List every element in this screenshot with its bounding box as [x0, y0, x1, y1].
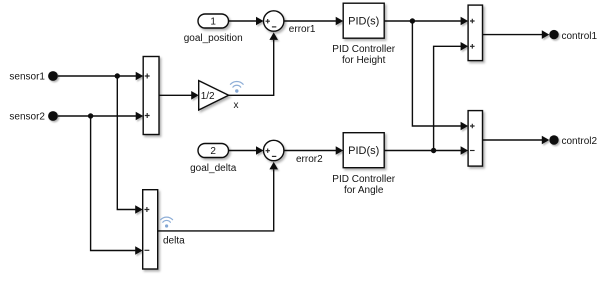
junction PID Angle output — [431, 148, 436, 153]
sum block Add2 (bottom right) — [468, 111, 482, 167]
svg-text:for Height: for Height — [342, 55, 386, 66]
svg-text:PID Controller: PID Controller — [332, 174, 395, 185]
wire sensor2 to Add — [58, 112, 143, 121]
wire Add2 to control2 — [483, 136, 550, 145]
wire goal_delta to Sum2 — [229, 146, 264, 155]
svg-text:PID(s): PID(s) — [348, 16, 379, 28]
junction PID Height output — [410, 18, 415, 23]
wire PID Angle junction up to Add1 second input — [434, 42, 469, 151]
wire Sum2 to PID Angle (error2) — [284, 146, 343, 165]
svg-text:2: 2 — [210, 146, 216, 157]
wire sensor2 junction to Subtract minus input — [91, 116, 143, 255]
svg-text:sensor2: sensor2 — [9, 112, 45, 123]
inport sensor1 — [9, 71, 57, 83]
sum block Subtract (delta) — [143, 190, 158, 269]
signal logging badge on x — [230, 81, 243, 92]
wire Subtract to Sum2 (right then up) — [158, 162, 278, 231]
svg-text:control1: control1 — [562, 31, 598, 42]
PID Controller for Height block U1 — [332, 3, 395, 66]
sum circle Sum1 — [264, 11, 284, 31]
svg-text:sensor1: sensor1 — [9, 72, 45, 83]
svg-text:goal_delta: goal_delta — [190, 163, 237, 174]
wire Sum1 to PID Height (error1) — [284, 17, 343, 35]
wire Gain to Sum1 (right then up) — [229, 32, 278, 95]
wire PID Height to Add1 — [384, 17, 468, 26]
outport control2 — [549, 135, 597, 147]
wire sensor1 junction to Subtract plus input — [117, 76, 142, 214]
sum block Add — [143, 57, 159, 135]
wire Add to Gain — [159, 91, 199, 100]
svg-text:goal_position: goal_position — [184, 33, 243, 44]
wire PID Height junction to Add2 plus input — [412, 21, 468, 130]
svg-text:delta: delta — [163, 236, 185, 247]
junction on sensor1 wire — [115, 73, 120, 78]
wire sensor1 to Add — [58, 72, 143, 81]
wire Add1 to control1 — [483, 30, 550, 39]
sum circle Sum2 — [264, 140, 284, 160]
svg-text:1: 1 — [210, 17, 216, 28]
inport goal_delta (2) — [190, 144, 237, 174]
svg-text:1/2: 1/2 — [201, 91, 215, 102]
wire goal_position to Sum1 — [229, 17, 264, 26]
svg-text:x: x — [234, 100, 239, 111]
svg-text:control2: control2 — [562, 136, 598, 147]
gain block x (1/2) — [199, 81, 229, 110]
inport sensor2 — [9, 111, 57, 123]
signal logging badge on delta — [161, 217, 173, 228]
outport control1 — [549, 30, 597, 42]
sum block Add1 (top right) — [468, 5, 482, 61]
svg-text:error1: error1 — [289, 24, 316, 35]
svg-text:error2: error2 — [296, 154, 323, 165]
svg-text:for Angle: for Angle — [344, 185, 384, 196]
svg-text:PID Controller: PID Controller — [332, 44, 395, 55]
junction on sensor2 wire — [88, 113, 93, 118]
svg-text:PID(s): PID(s) — [348, 145, 379, 157]
PID Controller for Angle block U2 — [332, 133, 395, 196]
wire PID Angle to Add2 minus input — [384, 146, 468, 155]
inport goal_position (1) — [184, 14, 243, 44]
